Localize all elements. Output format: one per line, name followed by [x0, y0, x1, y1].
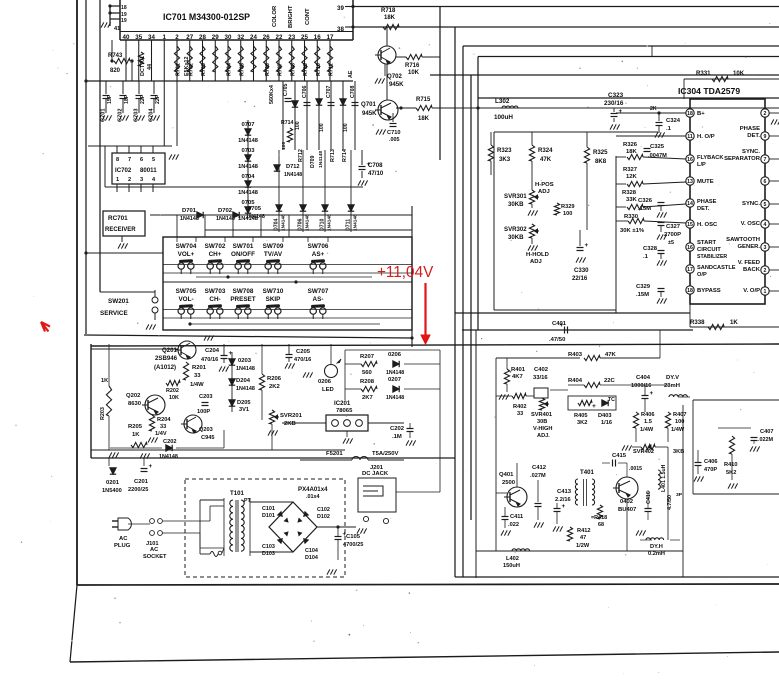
svg-text:R714: R714 — [281, 120, 294, 126]
svg-text:1000/16: 1000/16 — [631, 383, 651, 389]
svg-text:C413: C413 — [557, 489, 572, 495]
svg-text:ADJ: ADJ — [538, 189, 550, 195]
svg-text:150uH: 150uH — [503, 563, 520, 569]
svg-text:R330: R330 — [624, 214, 639, 220]
svg-text:C704: C704 — [149, 108, 155, 122]
svg-text:Q701: Q701 — [361, 101, 377, 108]
svg-text:.027M: .027M — [530, 473, 546, 479]
svg-text:15: 15 — [687, 222, 693, 228]
svg-text:T101: T101 — [230, 490, 245, 497]
svg-text:C205: C205 — [296, 349, 311, 355]
svg-text:2KB: 2KB — [284, 421, 296, 427]
svg-text:68: 68 — [598, 522, 604, 528]
svg-text:R401: R401 — [511, 367, 526, 373]
svg-text:BRIGHT: BRIGHT — [288, 5, 294, 28]
svg-text:5: 5 — [152, 157, 155, 163]
svg-text:C104: C104 — [305, 548, 318, 554]
svg-text:C945: C945 — [201, 435, 215, 441]
svg-text:Q202: Q202 — [126, 393, 141, 399]
svg-text:SOCKET: SOCKET — [143, 554, 167, 560]
svg-text:8K8: 8K8 — [595, 158, 607, 165]
svg-text:C329: C329 — [636, 284, 651, 290]
svg-text:18: 18 — [121, 5, 127, 11]
svg-text:C406: C406 — [704, 459, 718, 465]
svg-text:.0015: .0015 — [629, 466, 642, 472]
svg-text:SW703: SW703 — [205, 288, 226, 295]
svg-text:1K: 1K — [132, 432, 140, 438]
svg-text:R743: R743 — [108, 53, 123, 59]
svg-text:47K: 47K — [540, 156, 552, 163]
svg-text:0705: 0705 — [248, 206, 262, 212]
svg-text:3V1: 3V1 — [239, 407, 249, 413]
svg-text:1/4V: 1/4V — [155, 431, 167, 437]
svg-text:22C: 22C — [604, 378, 616, 384]
svg-text:SW701: SW701 — [233, 243, 254, 250]
svg-text:12K: 12K — [626, 174, 638, 180]
svg-text:R328: R328 — [622, 190, 637, 196]
svg-text:C407: C407 — [760, 429, 774, 435]
svg-text:R406: R406 — [641, 412, 655, 418]
svg-text:SW706: SW706 — [308, 243, 329, 250]
svg-text:C202: C202 — [163, 439, 177, 445]
svg-text:1: 1 — [116, 177, 119, 183]
svg-text:F5201: F5201 — [326, 451, 343, 457]
svg-text:R203: R203 — [100, 407, 106, 420]
svg-text:+: + — [592, 403, 596, 410]
svg-text:2: 2 — [764, 111, 767, 117]
svg-text:25: 25 — [301, 34, 308, 41]
svg-text:DET.: DET. — [697, 206, 710, 212]
svg-text:2K: 2K — [650, 106, 657, 112]
svg-text:Q702: Q702 — [387, 73, 403, 80]
svg-text:16: 16 — [687, 157, 693, 163]
svg-text:30KB: 30KB — [508, 201, 524, 208]
svg-text:30K ±1%: 30K ±1% — [620, 228, 645, 234]
svg-text:1N5400: 1N5400 — [102, 488, 122, 494]
svg-text:0707: 0707 — [241, 122, 255, 128]
svg-text:SW707: SW707 — [308, 288, 329, 295]
svg-text:34: 34 — [148, 34, 155, 41]
svg-text:22F: 22F — [155, 95, 161, 104]
svg-text:3KB: 3KB — [673, 449, 684, 455]
svg-text:C327: C327 — [666, 224, 681, 230]
svg-text:18P: 18P — [124, 94, 130, 104]
svg-text:SVR301: SVR301 — [504, 193, 527, 200]
svg-text:IC304 TDA2579: IC304 TDA2579 — [678, 86, 740, 96]
svg-text:AS+: AS+ — [312, 251, 325, 258]
svg-text:R327: R327 — [623, 167, 638, 173]
svg-text:18K: 18K — [384, 15, 396, 21]
svg-text:4K7: 4K7 — [512, 374, 524, 380]
svg-text:7: 7 — [128, 157, 131, 163]
svg-text:ADJ.: ADJ. — [537, 433, 550, 439]
svg-text:SYNC.: SYNC. — [742, 201, 760, 207]
svg-text:+: + — [619, 108, 623, 115]
svg-text:22: 22 — [276, 34, 283, 41]
svg-text:PHASE: PHASE — [740, 126, 760, 132]
svg-text:R325: R325 — [593, 149, 608, 156]
svg-text:R326: R326 — [623, 142, 638, 148]
svg-text:(A1012): (A1012) — [154, 364, 176, 371]
svg-text:C202: C202 — [390, 426, 405, 432]
svg-text:R710: R710 — [316, 63, 322, 76]
svg-text:SW705: SW705 — [176, 288, 197, 295]
svg-text:18: 18 — [687, 288, 693, 294]
svg-text:.1M: .1M — [392, 434, 402, 440]
svg-text:C105: C105 — [346, 534, 361, 540]
svg-text:D702: D702 — [218, 208, 233, 214]
svg-text:100: 100 — [281, 141, 287, 150]
svg-text:0206: 0206 — [388, 352, 402, 358]
svg-text:15P: 15P — [107, 94, 113, 104]
svg-text:R715: R715 — [416, 97, 431, 103]
svg-text:C707: C707 — [326, 85, 332, 98]
svg-text:H. O/P: H. O/P — [697, 134, 715, 140]
svg-text:2K2: 2K2 — [269, 384, 281, 390]
svg-text:32: 32 — [237, 34, 244, 41]
svg-text:DCT701: DCT701 — [140, 56, 146, 76]
svg-text:C102: C102 — [317, 507, 330, 513]
svg-text:35: 35 — [135, 34, 142, 41]
svg-text:AC: AC — [119, 536, 128, 542]
svg-text:8630: 8630 — [128, 401, 142, 407]
svg-text:17: 17 — [687, 267, 693, 273]
svg-text:R207: R207 — [360, 354, 375, 360]
svg-text:C103: C103 — [262, 544, 275, 550]
svg-text:R201: R201 — [192, 365, 207, 371]
svg-text:0206: 0206 — [318, 379, 332, 385]
svg-text:DC JACK: DC JACK — [362, 471, 389, 477]
svg-text:L302: L302 — [495, 98, 510, 105]
svg-text:C204: C204 — [205, 348, 220, 354]
svg-text:R716: R716 — [405, 63, 420, 69]
svg-text:DY.V: DY.V — [666, 375, 679, 381]
svg-text:D205: D205 — [237, 400, 251, 406]
svg-text:R331: R331 — [696, 70, 711, 77]
svg-text:33K: 33K — [626, 197, 638, 203]
svg-text:IC701 M34300-012SP: IC701 M34300-012SP — [163, 12, 250, 22]
svg-text:1N4148: 1N4148 — [238, 164, 258, 170]
svg-text:10K: 10K — [733, 70, 745, 77]
svg-text:3K2: 3K2 — [577, 420, 587, 426]
svg-text:D403: D403 — [598, 413, 612, 419]
svg-text:0203: 0203 — [238, 358, 252, 364]
svg-text:O/P: O/P — [697, 272, 707, 278]
svg-text:C325: C325 — [650, 144, 665, 150]
svg-text:0704: 0704 — [241, 174, 255, 180]
svg-text:R205: R205 — [128, 424, 143, 430]
svg-text:100: 100 — [563, 211, 572, 217]
svg-text:R323: R323 — [497, 147, 512, 154]
svg-text:D704: D704 — [274, 218, 280, 231]
svg-text:CH+: CH+ — [209, 251, 222, 258]
svg-text:D709: D709 — [310, 155, 316, 168]
svg-text:C710: C710 — [387, 130, 401, 136]
svg-text:ON/OFF: ON/OFF — [231, 251, 255, 258]
svg-text:10K: 10K — [169, 395, 179, 401]
svg-text:2SB946: 2SB946 — [155, 355, 178, 362]
svg-text:SANDCASTLE: SANDCASTLE — [697, 265, 736, 271]
svg-text:1/4W: 1/4W — [671, 427, 685, 433]
svg-text:C330: C330 — [574, 267, 589, 274]
svg-text:R208: R208 — [360, 379, 375, 385]
svg-text:18K: 18K — [626, 149, 638, 155]
svg-text:R324: R324 — [538, 147, 553, 154]
svg-text:C324: C324 — [666, 118, 681, 124]
svg-text:DY.H: DY.H — [650, 544, 663, 550]
svg-text:30: 30 — [225, 34, 232, 41]
svg-text:22F: 22F — [140, 95, 146, 104]
svg-text:1N4148: 1N4148 — [305, 214, 311, 231]
svg-text:T401: T401 — [580, 469, 595, 476]
svg-text:BU407: BU407 — [618, 507, 637, 513]
svg-text:T5A/250V: T5A/250V — [372, 451, 399, 457]
svg-text:L/P: L/P — [697, 162, 706, 168]
svg-text:0703: 0703 — [241, 148, 255, 154]
svg-text:PHASE: PHASE — [697, 199, 717, 205]
svg-text:.1: .1 — [643, 254, 649, 260]
svg-text:5: 5 — [764, 202, 767, 208]
svg-text:VOL-: VOL- — [178, 296, 193, 303]
svg-text:2K7: 2K7 — [362, 395, 374, 401]
svg-text:PLUG: PLUG — [114, 543, 131, 549]
svg-text:SW709: SW709 — [263, 243, 284, 250]
svg-text:47K: 47K — [605, 352, 617, 358]
svg-text:R706: R706 — [265, 63, 271, 76]
svg-text:945K: 945K — [362, 110, 377, 117]
svg-text:GENER.: GENER. — [737, 244, 760, 250]
svg-text:D711: D711 — [346, 219, 352, 231]
svg-text:SEPARATOR: SEPARATOR — [724, 156, 761, 162]
svg-text:MUTE: MUTE — [697, 179, 714, 185]
svg-text:R412: R412 — [577, 528, 591, 534]
svg-text:R410: R410 — [724, 462, 738, 468]
svg-text:C326: C326 — [638, 198, 653, 204]
svg-text:27: 27 — [186, 34, 193, 41]
svg-text:COLOR: COLOR — [272, 5, 278, 27]
svg-text:TV/AV: TV/AV — [264, 251, 283, 258]
svg-text:TC: TC — [608, 397, 615, 403]
svg-text:.15M: .15M — [636, 292, 649, 298]
svg-text:R705: R705 — [239, 63, 245, 76]
svg-text:R701: R701 — [176, 63, 182, 76]
svg-text:1/4W: 1/4W — [190, 382, 204, 388]
svg-text:D710: D710 — [320, 218, 326, 231]
svg-text:2200/25: 2200/25 — [128, 487, 148, 493]
svg-text:Q401: Q401 — [499, 472, 514, 478]
svg-text:+: + — [562, 503, 566, 510]
svg-text:1N4148: 1N4148 — [238, 190, 258, 196]
svg-text:BACK: BACK — [743, 267, 761, 273]
svg-text:.022: .022 — [508, 522, 519, 528]
svg-text:100uH: 100uH — [494, 114, 513, 121]
svg-text:23: 23 — [288, 34, 295, 41]
svg-text:C416: C416 — [646, 491, 652, 504]
svg-text:C705: C705 — [283, 83, 289, 96]
svg-text:C203: C203 — [199, 394, 213, 400]
svg-text:47/10: 47/10 — [368, 170, 384, 177]
svg-text:R702: R702 — [188, 63, 194, 76]
svg-text:AE: AE — [348, 70, 354, 78]
svg-text:2: 2 — [175, 34, 179, 41]
svg-text:22/16: 22/16 — [572, 275, 588, 282]
svg-text:SAWTOOTH: SAWTOOTH — [726, 237, 760, 243]
svg-text:R206: R206 — [267, 376, 282, 382]
svg-text:4: 4 — [764, 222, 767, 228]
svg-text:1N4148: 1N4148 — [318, 151, 324, 168]
svg-text:L401 1.5uH: L401 1.5uH — [661, 464, 667, 492]
svg-text:SERVICE: SERVICE — [100, 310, 128, 317]
svg-text:100: 100 — [295, 121, 301, 130]
svg-text:16: 16 — [314, 34, 321, 41]
svg-text:H. OSC: H. OSC — [697, 222, 718, 228]
svg-text:D204: D204 — [236, 378, 251, 384]
svg-text:D706: D706 — [298, 218, 304, 231]
svg-text:7: 7 — [764, 157, 767, 163]
svg-text:41: 41 — [114, 26, 120, 32]
svg-text:R403: R403 — [568, 352, 583, 358]
svg-text:38: 38 — [337, 26, 344, 33]
svg-text:3: 3 — [764, 245, 767, 251]
svg-text:C415: C415 — [612, 453, 627, 459]
svg-text:SYNC.: SYNC. — [742, 149, 760, 155]
svg-text:100: 100 — [319, 123, 325, 132]
svg-text:R202: R202 — [166, 388, 179, 394]
svg-text:39: 39 — [337, 5, 344, 12]
svg-text:=R418: =R418 — [591, 515, 607, 521]
svg-text:14: 14 — [687, 201, 693, 207]
svg-text:BYPASS: BYPASS — [697, 288, 721, 294]
svg-text:1N4148: 1N4148 — [180, 216, 199, 222]
svg-text:17: 17 — [327, 34, 334, 41]
svg-text:1N4148: 1N4148 — [386, 395, 404, 401]
svg-text:+11,04V: +11,04V — [377, 264, 434, 281]
svg-text:28: 28 — [199, 34, 206, 41]
svg-text:SVR402: SVR402 — [633, 449, 654, 455]
svg-text:1N4148: 1N4148 — [159, 454, 178, 460]
svg-text:D712: D712 — [286, 164, 300, 170]
svg-text:R405: R405 — [574, 413, 588, 419]
svg-text:C703: C703 — [134, 109, 140, 123]
svg-text:C328: C328 — [643, 246, 658, 252]
svg-text:AS-: AS- — [313, 296, 324, 303]
svg-text:C404: C404 — [636, 375, 651, 381]
svg-text:SVR201: SVR201 — [280, 413, 303, 419]
svg-text:R703: R703 — [201, 63, 207, 76]
svg-text:PRESET: PRESET — [230, 296, 255, 303]
svg-text:1: 1 — [764, 289, 767, 295]
svg-text:0207: 0207 — [388, 377, 402, 383]
svg-text:1N4148: 1N4148 — [353, 214, 359, 231]
svg-text:78065: 78065 — [336, 408, 353, 414]
svg-text:5K2: 5K2 — [726, 470, 736, 476]
svg-text:H-HOLD: H-HOLD — [526, 252, 549, 258]
svg-text:R402: R402 — [513, 404, 527, 410]
svg-text:CONT: CONT — [305, 8, 311, 25]
svg-text:33: 33 — [517, 411, 523, 417]
svg-text:R718: R718 — [381, 8, 396, 14]
svg-text:33/16: 33/16 — [533, 375, 548, 381]
svg-text:33: 33 — [194, 373, 201, 379]
svg-text:CH-: CH- — [209, 296, 220, 303]
svg-text:18K: 18K — [418, 116, 430, 122]
svg-text:B+: B+ — [697, 111, 705, 117]
svg-text:470P: 470P — [704, 467, 717, 473]
svg-text:RECEIVER: RECEIVER — [105, 227, 136, 233]
svg-text:100: 100 — [343, 123, 349, 132]
svg-text:R709: R709 — [303, 63, 309, 76]
svg-text:C701: C701 — [101, 109, 107, 123]
svg-text:R407: R407 — [673, 412, 687, 418]
svg-text:D102: D102 — [317, 514, 330, 520]
svg-text:.1: .1 — [666, 126, 672, 132]
svg-text:CIRCUIT: CIRCUIT — [697, 247, 721, 253]
svg-text:24: 24 — [250, 34, 257, 41]
svg-text:AC: AC — [150, 547, 158, 553]
svg-text:R704: R704 — [227, 63, 233, 76]
svg-text:STABILIZER: STABILIZER — [697, 254, 727, 260]
svg-text:R338: R338 — [690, 319, 705, 326]
svg-text:6: 6 — [140, 157, 143, 163]
svg-text:3K3: 3K3 — [499, 156, 511, 163]
svg-text:1N4148: 1N4148 — [386, 370, 404, 376]
svg-text:3: 3 — [140, 177, 143, 183]
svg-text:SW702: SW702 — [205, 243, 226, 250]
svg-text:IC201: IC201 — [334, 400, 351, 407]
svg-text:0.2mH: 0.2mH — [648, 551, 665, 557]
svg-text:1/4W: 1/4W — [640, 427, 654, 433]
svg-text:H-POS: H-POS — [535, 182, 554, 188]
svg-text:C412: C412 — [532, 465, 547, 471]
svg-text:C323: C323 — [608, 92, 624, 99]
svg-text:29: 29 — [212, 34, 219, 41]
svg-text:L402: L402 — [506, 556, 519, 562]
svg-text:±5: ±5 — [668, 240, 674, 246]
svg-text:R711: R711 — [329, 63, 335, 76]
svg-text:SW708: SW708 — [233, 288, 254, 295]
svg-text:.47/50: .47/50 — [549, 337, 566, 343]
svg-text:C708: C708 — [368, 162, 383, 169]
svg-text:9: 9 — [764, 134, 767, 140]
svg-text:FLYBACK: FLYBACK — [697, 155, 724, 161]
svg-text:100P: 100P — [197, 409, 210, 415]
svg-text:560Kx4: 560Kx4 — [269, 85, 275, 104]
svg-text:1/2W: 1/2W — [576, 543, 590, 549]
svg-text:D101: D101 — [262, 513, 275, 519]
svg-text:1K: 1K — [101, 378, 109, 384]
svg-text:V. O/P: V. O/P — [743, 288, 760, 294]
svg-text:R329: R329 — [561, 204, 575, 210]
svg-text:V. OSC: V. OSC — [741, 221, 761, 227]
svg-text:1N4148: 1N4148 — [238, 138, 258, 144]
svg-text:LED: LED — [322, 387, 334, 393]
svg-text:R204: R204 — [157, 417, 171, 423]
svg-text:V. FEED: V. FEED — [738, 260, 760, 266]
svg-text:.005: .005 — [389, 137, 400, 143]
svg-text:1K: 1K — [730, 319, 738, 326]
svg-text:Q203: Q203 — [199, 427, 213, 433]
svg-text:11: 11 — [687, 134, 693, 140]
svg-text:16: 16 — [687, 245, 693, 251]
svg-text:RC701: RC701 — [108, 215, 128, 222]
svg-text:R714: R714 — [342, 149, 348, 162]
svg-text:6: 6 — [764, 179, 767, 185]
svg-text:.01x4: .01x4 — [306, 494, 320, 500]
svg-text:33: 33 — [160, 424, 166, 430]
svg-text:1N4148: 1N4148 — [236, 366, 255, 372]
svg-text:47: 47 — [580, 535, 586, 541]
svg-text:1N4148: 1N4148 — [236, 386, 255, 392]
